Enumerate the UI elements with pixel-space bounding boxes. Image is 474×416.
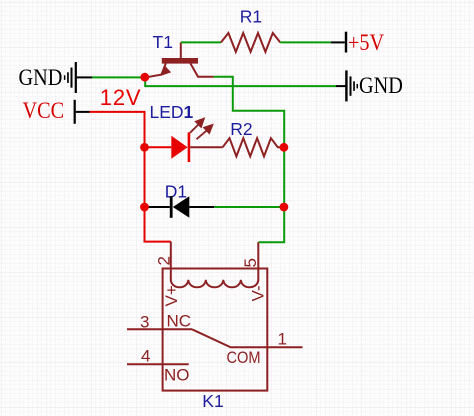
wire (T1 base to R1, green) <box>181 41 221 43</box>
node junction (T1 emitter / GND) <box>140 73 149 82</box>
svg-text:T1: T1 <box>153 32 173 52</box>
emitter with arrow <box>147 63 166 77</box>
svg-text:5: 5 <box>241 258 260 267</box>
node junction (D1 anode) <box>140 203 149 212</box>
pin 4 (NO) <box>127 363 189 365</box>
svg-text:R2: R2 <box>230 119 252 139</box>
wire (GND to T1 emitter, green) <box>92 76 145 78</box>
svg-text:GND: GND <box>359 73 403 98</box>
svg-text:V-: V- <box>249 285 268 301</box>
led LED1 <box>145 119 213 162</box>
coil <box>171 280 258 288</box>
emission arrows <box>190 119 212 140</box>
power flag VCC <box>23 98 76 124</box>
wire (LED cathode to R2, dark red lead) <box>190 146 222 148</box>
svg-text:12V: 12V <box>100 85 142 110</box>
wire (12V net: VCC to relay pin 2, red) <box>90 112 171 242</box>
svg-text:V+: V+ <box>162 285 181 306</box>
svg-text:GND: GND <box>19 65 63 90</box>
svg-text:VCC: VCC <box>23 98 65 123</box>
svg-text:+5V: +5V <box>348 30 384 55</box>
svg-text:NC: NC <box>167 311 192 330</box>
wire (VCC stub, black) <box>76 111 90 113</box>
resistor R1 <box>221 33 280 52</box>
wire (GND flag stub, black) <box>77 76 92 78</box>
svg-text:R1: R1 <box>240 7 262 27</box>
relay K1 <box>127 242 303 391</box>
wire (D1 cathode to green branch) <box>214 206 284 208</box>
power flag GND (left) <box>19 62 77 93</box>
wire (right GND flag stub, black) <box>336 85 345 87</box>
svg-text:3: 3 <box>140 313 149 332</box>
transistor T1 <box>147 42 214 77</box>
wire (R1 to +5V, green) <box>280 41 331 43</box>
node junction (R2 right) <box>280 143 289 152</box>
wire (T1 collector to GND rail and R2 branch, green) <box>214 77 285 148</box>
power flag GND (right) <box>345 70 403 101</box>
base bar <box>162 58 198 64</box>
base lead <box>180 42 182 58</box>
svg-text:NO: NO <box>164 366 190 385</box>
pin 2 <box>170 242 172 281</box>
wire (branch down to relay pin 5, green) <box>258 147 284 242</box>
wire (GND rail down + across to right GND) <box>145 77 336 86</box>
svg-text:LED1: LED1 <box>150 102 194 122</box>
resistor R2 <box>223 138 284 156</box>
svg-text:4: 4 <box>141 346 150 365</box>
svg-text:1: 1 <box>278 329 287 348</box>
svg-text:COM: COM <box>227 349 261 367</box>
node junction (D1 cathode) <box>280 203 289 212</box>
pin 3 (NC) <box>127 328 192 330</box>
collector <box>190 63 213 76</box>
pin 1 (COM) <box>267 346 302 348</box>
svg-text:K1: K1 <box>202 391 223 411</box>
svg-text:2: 2 <box>155 256 174 265</box>
body <box>163 269 268 391</box>
node junction (LED anode) <box>140 143 149 152</box>
diode D1 <box>145 196 215 218</box>
svg-text:D1: D1 <box>165 182 187 202</box>
switch arm <box>192 329 267 347</box>
pin 5 <box>257 242 259 280</box>
power flag +5V <box>331 30 385 55</box>
